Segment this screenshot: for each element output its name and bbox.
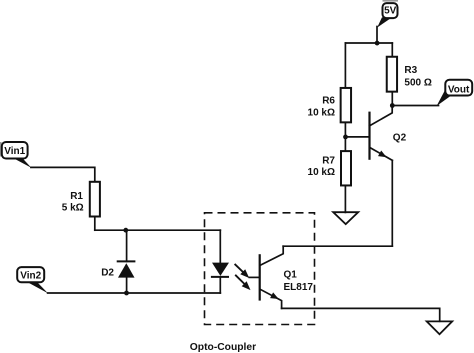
svg-text:Vin1: Vin1 [4,146,25,157]
svg-text:Vin2: Vin2 [20,270,41,281]
svg-text:D2: D2 [101,268,114,279]
svg-text:R3: R3 [404,65,417,76]
svg-text:Opto-Coupler: Opto-Coupler [190,342,256,353]
svg-text:10 kΩ: 10 kΩ [308,107,335,118]
svg-text:500 Ω: 500 Ω [404,78,431,89]
svg-text:R6: R6 [322,96,335,107]
svg-text:EL817: EL817 [284,282,314,293]
svg-text:Vout: Vout [448,84,470,95]
svg-text:R1: R1 [70,191,83,202]
svg-text:Q1: Q1 [284,270,298,281]
svg-text:10 kΩ: 10 kΩ [308,167,335,178]
svg-text:Q2: Q2 [393,133,407,144]
svg-text:5 kΩ: 5 kΩ [62,203,84,214]
svg-text:5V: 5V [384,6,397,17]
svg-text:R7: R7 [322,156,335,167]
